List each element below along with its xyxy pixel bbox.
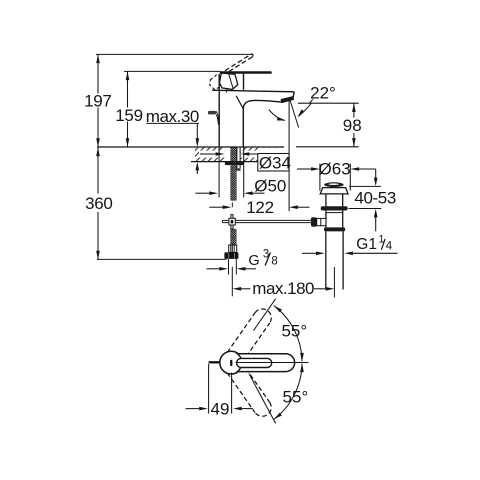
drain O-ring bbox=[321, 206, 348, 210]
bottom view lever stub bbox=[210, 361, 222, 363]
dimension Ø63 bbox=[297, 164, 376, 191]
pop-up rod cross fitting bbox=[222, 215, 235, 229]
svg-text:159: 159 bbox=[115, 106, 142, 125]
dimension G3/8 bbox=[207, 268, 257, 270]
dimension 40-53 bbox=[349, 169, 382, 231]
aerator at spout tip bbox=[281, 97, 293, 103]
wire top reference line 197 bbox=[96, 53, 252, 55]
dimension max.180 bbox=[241, 288, 325, 290]
bottom view dashed lever rotated up 55 bbox=[227, 305, 275, 419]
handle boss bbox=[220, 73, 238, 93]
dimension Ø34 arrows bbox=[200, 153, 257, 155]
dimension 360 bbox=[97, 147, 99, 259]
drain flange bbox=[320, 188, 348, 194]
pop-up horizontal rod to drain bbox=[235, 220, 311, 222]
svg-text:max.30: max.30 bbox=[146, 107, 199, 126]
dimension 197 bbox=[97, 54, 99, 147]
drain knob collar bbox=[317, 218, 326, 225]
svg-text:55°: 55° bbox=[281, 322, 307, 341]
drain lower ring bbox=[324, 227, 345, 231]
svg-text:22°: 22° bbox=[310, 84, 336, 103]
hose crimp collar bbox=[229, 245, 237, 252]
svg-text:8: 8 bbox=[271, 256, 277, 268]
faucet shank cross-hatched in deck hole bbox=[230, 147, 236, 162]
svg-text:197: 197 bbox=[84, 91, 111, 110]
G3/8 threaded pipe end bbox=[229, 259, 237, 275]
bottom view lever outline bbox=[237, 354, 294, 372]
node hose centerline lower bbox=[231, 267, 233, 297]
drain tailpiece bbox=[325, 231, 327, 289]
drain neck bbox=[325, 194, 327, 207]
washer under deck bbox=[225, 161, 244, 165]
svg-text:98: 98 bbox=[343, 116, 362, 135]
svg-text:Ø63: Ø63 bbox=[319, 159, 351, 178]
dimension G1 1/4 bbox=[302, 252, 398, 254]
svg-text:55°: 55° bbox=[283, 387, 309, 406]
flexible hose upper segment bbox=[230, 165, 236, 201]
small flag on body left side bbox=[208, 111, 219, 125]
deck hatched counter left part bbox=[97, 147, 284, 162]
svg-text:max.180: max.180 bbox=[252, 279, 314, 298]
dimension 55 top bbox=[254, 299, 303, 362]
svg-text:G: G bbox=[248, 253, 259, 269]
label box Ø34 bbox=[258, 148, 289, 171]
svg-text:40-53: 40-53 bbox=[354, 188, 395, 207]
drain dome cap bbox=[324, 182, 343, 187]
svg-text:360: 360 bbox=[85, 194, 112, 213]
bottom view pivot tick bbox=[230, 360, 232, 366]
bottom view pivot circle bbox=[220, 351, 243, 374]
node drain centerline bbox=[333, 267, 335, 298]
dimension 22 degrees bbox=[269, 99, 359, 127]
dimension max.30 bbox=[146, 123, 199, 174]
svg-text:4: 4 bbox=[386, 240, 393, 252]
wire hose-end reference line 360 bbox=[97, 258, 226, 260]
svg-text:Ø34: Ø34 bbox=[259, 153, 291, 172]
svg-text:49: 49 bbox=[211, 399, 230, 418]
dimension 122 bbox=[209, 100, 309, 212]
solid lever bar bbox=[221, 71, 271, 74]
node hose centerline stub bbox=[231, 203, 233, 208]
bottom view dashed lever rotated down 55 bbox=[227, 363, 274, 420]
faucet body outline bbox=[212, 74, 294, 147]
wire lever-top reference line 159 bbox=[124, 70, 221, 72]
svg-text:G1: G1 bbox=[356, 236, 377, 253]
bottom view lever slot bbox=[237, 358, 272, 367]
dimension 55 bottom bbox=[249, 364, 302, 424]
drain body bbox=[325, 211, 327, 228]
drain lever knob bbox=[311, 217, 317, 226]
mounting stud bbox=[236, 147, 240, 171]
dashed handle boss rotated bbox=[210, 75, 223, 90]
dimension 159 bbox=[127, 71, 129, 147]
drain pop-up waste assembly bbox=[311, 182, 348, 289]
dashed lever rotated up bbox=[223, 54, 254, 76]
flexible hose lower segment bbox=[230, 229, 236, 245]
dimension 98 bbox=[353, 103, 355, 147]
dimension Ø50 bbox=[195, 147, 264, 198]
bottom view centerline bbox=[236, 362, 309, 364]
svg-text:Ø50: Ø50 bbox=[254, 176, 286, 195]
G3/8 connection nut bbox=[224, 252, 238, 259]
svg-text:122: 122 bbox=[246, 198, 273, 217]
wire deck reference extension right for 98 bbox=[296, 146, 359, 148]
dimension 49 bbox=[186, 364, 253, 414]
